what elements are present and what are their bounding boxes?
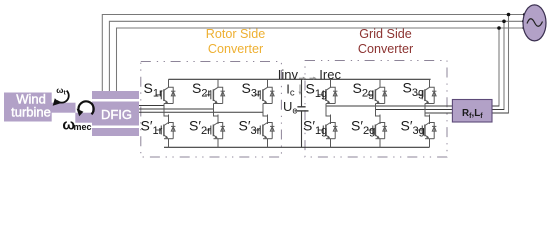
svg-text:Rf,Lf: Rf,Lf: [462, 108, 483, 120]
svg-text:S′2g: S′2g: [351, 118, 375, 137]
svg-text:S3g: S3g: [403, 80, 425, 99]
svg-text:Ic: Ic: [286, 82, 295, 99]
svg-text:ωt: ωt: [56, 85, 66, 97]
svg-text:turbine: turbine: [11, 105, 51, 120]
svg-text:S3r: S3r: [242, 80, 261, 99]
svg-text:S2r: S2r: [192, 80, 211, 99]
svg-text:Converter: Converter: [208, 42, 263, 56]
svg-text:Grid Side: Grid Side: [359, 27, 412, 41]
svg-text:S1g: S1g: [306, 81, 328, 100]
svg-text:Converter: Converter: [358, 42, 413, 56]
svg-text:S′2r: S′2r: [189, 118, 211, 137]
svg-text:S1r: S1r: [144, 80, 163, 99]
svg-text:mec: mec: [74, 122, 92, 132]
svg-text:S2g: S2g: [353, 80, 375, 99]
svg-text:Irec: Irec: [319, 67, 341, 82]
svg-text:DFIG: DFIG: [101, 107, 132, 122]
svg-text:Rotor Side: Rotor Side: [206, 27, 266, 41]
svg-text:S′3r: S′3r: [239, 118, 261, 137]
svg-text:Iinv: Iinv: [278, 67, 299, 82]
svg-text:S′1r: S′1r: [141, 118, 163, 137]
svg-text:S′3g: S′3g: [401, 118, 425, 137]
svg-text:Uc: Uc: [283, 99, 297, 116]
svg-text:S′1g: S′1g: [303, 118, 327, 137]
